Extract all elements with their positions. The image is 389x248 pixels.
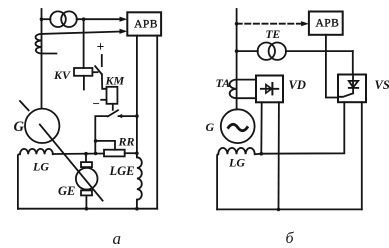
svg-text:АРВ: АРВ [315, 18, 339, 30]
node: junction LG / VD lead [260, 152, 264, 156]
wire: KV lower stub [83, 76, 85, 90]
contact of KM (blade) [108, 110, 118, 116]
wire: ARV output lead (inner, to KM contact / RR / LGE) [136, 36, 138, 158]
wire: bottom bus (circuit a) [18, 208, 157, 210]
svg-text:G: G [206, 120, 215, 134]
wire: inner lead to bottom bus [136, 200, 138, 209]
wire: generator G stator lead (left vertical) [41, 9, 43, 109]
node: minus supply stub [101, 99, 106, 101]
node: junction GE / bottom bus [85, 207, 89, 211]
generator G (circuit a) [14, 109, 60, 143]
node: junction tap/riser [94, 139, 98, 143]
wire: VS right lead to bottom bus [361, 102, 363, 209]
node: junction field line / ARV inner lead [135, 151, 139, 155]
svg-text:+: + [97, 39, 105, 54]
node: junction to exciter GE [84, 152, 88, 156]
wire: VD left output lead [260, 102, 262, 153]
svg-text:G: G [14, 119, 25, 135]
wire: KV coil lead from top bus [83, 19, 85, 68]
generator G (circuit b) [206, 109, 255, 143]
resistor RR [104, 135, 135, 157]
wire: bottom bus (circuit b) [217, 208, 362, 210]
svg-text:KV: KV [53, 68, 71, 82]
svg-text:а: а [113, 229, 122, 248]
inductor LGE (exciter field) on inner lead [109, 157, 142, 199]
svg-text:VD: VD [289, 78, 306, 92]
node: junction LGE / bottom bus [135, 207, 139, 211]
regulator U1: ARV box (circuit a) [127, 12, 161, 35]
wire: ARV control lead to VS gate [326, 35, 338, 98]
contact of KV (blade) [95, 66, 102, 74]
node: KM contact fixed terminal [118, 114, 123, 118]
wire: TA upper link to VD [237, 79, 256, 81]
transformer TE (circuit b) [258, 29, 286, 60]
svg-text:LG: LG [228, 156, 245, 170]
wire: GE lower lead [85, 195, 87, 208]
shaft: diagonal through G and GE [40, 125, 103, 201]
node: junction VD lead / bottom bus [277, 208, 281, 212]
node: junction TE line [235, 49, 239, 53]
svg-text:GE: GE [58, 184, 75, 198]
node: junction on inner ARV lead [135, 114, 139, 118]
arrow into ARV (dashed link) [301, 21, 309, 26]
wire: RR tap branch [96, 141, 115, 150]
contactor KM coil box [105, 74, 125, 104]
svg-text:АРВ: АРВ [134, 19, 158, 31]
relay KV coil box [53, 68, 92, 82]
svg-text:KM: KM [105, 74, 125, 88]
inductor LG (circuit b field winding) [217, 148, 261, 209]
thyristor VS box [338, 75, 389, 103]
wire: secondary stub [42, 53, 57, 55]
wire: VD right output lead to bottom bus [278, 102, 280, 209]
svg-text:RR: RR [118, 135, 135, 149]
wire: KV mechanical link to contact [92, 71, 97, 73]
rectifier VD box with diode [256, 76, 306, 103]
svg-text:TA: TA [216, 76, 231, 90]
wire: top bus to ARV (line 1) [42, 18, 51, 20]
regulator U2: ARV box (circuit b) [309, 12, 343, 35]
wire: field circuit line (LG to RR to ARV lead) [53, 153, 104, 156]
svg-text:LG: LG [32, 160, 49, 174]
inductor LG (circuit a field winding) [18, 149, 53, 209]
svg-text:б: б [286, 230, 295, 247]
transformer TE (circuit a) primary/secondary circles [50, 11, 77, 27]
node: junction riser/field line [94, 152, 98, 156]
svg-text:VS: VS [375, 78, 389, 92]
node: junction of G lead and top bus [40, 17, 44, 21]
svg-text:TE: TE [266, 29, 281, 41]
wire: TE line drop to VS [352, 51, 354, 74]
wire: plus terminal stub [101, 55, 103, 66]
winding: transformer secondary coil on left lead [36, 34, 42, 54]
wire: TE supply line [237, 50, 258, 52]
wire: TA lower link to VD [237, 97, 256, 99]
wire: GE upper lead [85, 154, 87, 162]
wire: KM coil bottom lead [112, 104, 114, 110]
wire: contact to KM coil [102, 74, 107, 89]
wire: KM contact line left piece [95, 116, 107, 153]
exciter GE with brush terminals [58, 162, 97, 198]
wire: ARV output lead (outer, to bottom bus) [156, 36, 158, 209]
wire: generator lead (left vertical, circuit b) [236, 9, 238, 109]
arrow into ARV (line 1) [120, 17, 128, 22]
shaft: diagonal upper segment [20, 101, 29, 110]
node: junction dashed link [235, 22, 239, 26]
wire: measuring bus to ARV (line 2) [42, 32, 121, 34]
current transformer TA winding [216, 76, 237, 98]
wire: dashed control link to ARV [237, 23, 302, 25]
arrow into ARV (line 2) [120, 29, 128, 34]
svg-text:LGE: LGE [109, 164, 135, 178]
wire: KM contact line right piece [119, 115, 137, 117]
wire: field line LG to VS [261, 102, 344, 154]
svg-text:−: − [93, 96, 100, 111]
node: junction feeding relay KV [82, 17, 86, 21]
